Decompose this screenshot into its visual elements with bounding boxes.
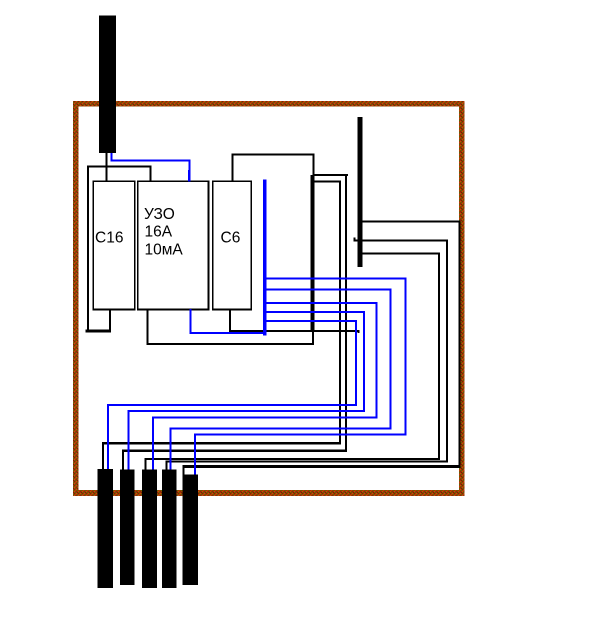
wire: feed bar right side to bar3: top horizontal — [361, 252, 440, 254]
wire: up to black bus bottom — [312, 330, 314, 346]
blue bus thick vertical — [263, 180, 267, 336]
svg-text:10мА: 10мА — [145, 242, 184, 259]
wire: bar5 drop — [183, 465, 185, 475]
wire: down to black bus top — [312, 154, 314, 176]
wire: bar3 right vertical — [438, 252, 440, 460]
wire: up into C16 bottom — [109, 309, 111, 333]
breaker UZO box — [138, 181, 209, 309]
outgoing cable bar2 — [120, 470, 135, 586]
wire: bar3 long horizontal — [145, 458, 440, 460]
outgoing cable bar5 — [183, 475, 199, 586]
wire: bar5 right vertical — [458, 220, 460, 468]
wire: down into UZO top — [149, 165, 151, 182]
feed cable (thick, top) — [99, 16, 116, 154]
wire: C6 bottom horizontal right — [229, 330, 360, 332]
breaker C16 box — [93, 181, 135, 309]
wire: bar4 top horizontal — [354, 239, 449, 241]
blue wire to bar3 — [265, 302, 378, 304]
wire: C6 bottom down — [229, 309, 231, 332]
blue wire to bar5 — [265, 277, 407, 279]
blue wire: UZO bottom to blue bus — [189, 309, 191, 334]
wire: bar1 drop — [102, 442, 104, 470]
wire: bar1 long vertical — [339, 180, 341, 444]
svg-text:16А: 16А — [145, 224, 173, 241]
wire: bar2 long horizontal — [122, 449, 347, 452]
outgoing cable bar1 — [98, 469, 114, 588]
svg-text:С16: С16 — [95, 230, 123, 247]
svg-text:УЗО: УЗО — [144, 206, 175, 223]
wire: C6 top horizontal to black bus — [232, 154, 315, 156]
blue wire to bar1 — [265, 320, 357, 322]
wire: left riser along C16 — [87, 165, 89, 332]
outgoing cable bar4 — [162, 470, 177, 589]
black bus thick vertical — [311, 175, 315, 331]
panel enclosure border (dithered brown rectangle) — [73, 101, 465, 107]
wire: end tick — [357, 330, 359, 333]
wire: bar2 drop — [122, 449, 124, 470]
wire: bar5 top horizontal — [361, 220, 461, 222]
wire: C6 top up — [232, 154, 234, 183]
blue wire: feed cable to UZO top — [111, 152, 113, 161]
wire: UZO bottom down — [147, 309, 149, 345]
wire: bus to cable2 (bar2) top horizontal — [313, 174, 348, 176]
wire: bar4 long horizontal — [166, 460, 448, 462]
wire: bar4 drop — [166, 460, 168, 470]
blue wire to bar2 — [265, 311, 365, 313]
wire: bar3 drop — [145, 458, 147, 470]
wire: bar4 tick — [354, 238, 356, 241]
wire: UZO bottom horizontal to bus — [147, 343, 314, 345]
spare cable (thick, right) — [357, 117, 362, 267]
wire: bottom hook below C16 — [86, 330, 111, 333]
wire: bar5 long horizontal — [183, 465, 461, 468]
outgoing cable bar3 — [142, 470, 157, 589]
wire: bus to cable1 (bar1) top horizontal — [313, 180, 341, 182]
wire: bar4 right vertical — [446, 239, 448, 462]
wire: C16 top jumper to UZO top (horizontal) — [87, 165, 151, 167]
blue wire to bar4 — [265, 289, 392, 291]
breaker C6 box — [213, 181, 251, 309]
wire: bar2 long vertical — [345, 174, 347, 452]
wire: bar1 long horizontal — [102, 442, 341, 444]
wire: feed cable to C16 top — [105, 153, 107, 182]
svg-text:С6: С6 — [221, 230, 241, 247]
